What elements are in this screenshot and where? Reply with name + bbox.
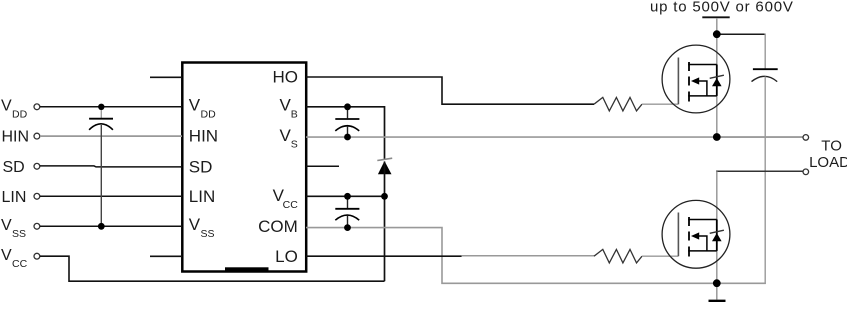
node VSS-C1 junction	[98, 223, 105, 230]
capacitor C2 (bootstrap) top lead	[347, 107, 349, 119]
wire VCC input run	[40, 256, 385, 281]
label TO LOAD	[809, 137, 847, 170]
terminal VDD	[34, 104, 40, 110]
wire COM return (gray)	[306, 228, 766, 284]
wire R2 to Q2 gate	[642, 255, 678, 257]
wire HIN input (gray)	[40, 135, 182, 137]
wire VDD input	[40, 106, 182, 108]
supply terminal bar	[702, 16, 729, 18]
svg-text:TO: TO	[821, 137, 842, 154]
node COM-C3 junction	[344, 224, 351, 231]
capacitor C3 bottom lead	[347, 216, 349, 228]
wire stub top-left of IC	[150, 76, 182, 78]
terminal load lower	[803, 169, 809, 175]
IC pin label VS	[279, 126, 297, 151]
wire LO output (gray segment)	[462, 255, 594, 257]
wire Q2 drain/source column (gray)	[716, 171, 718, 283]
capacitor C3 top plate	[335, 208, 359, 210]
body diode of Q1	[710, 75, 724, 78]
IC pin label VDD	[189, 96, 216, 121]
capacitor C4 (bus) upper lead (gray)	[764, 34, 766, 69]
node VS midpoint junction	[713, 133, 721, 141]
wire supply stem	[716, 18, 718, 34]
capacitor C1 (VDD bypass) lead	[100, 107, 102, 118]
svg-text:CC: CC	[283, 199, 299, 211]
wire R1 to Q1 gate	[642, 103, 678, 105]
node VCC-C3 junction	[344, 193, 351, 200]
svg-text:up to 500V or 600V: up to 500V or 600V	[650, 0, 794, 16]
resistor R2 (low-side gate)	[594, 249, 642, 263]
svg-text:HIN: HIN	[189, 127, 218, 146]
label VDD (input)	[1, 98, 28, 121]
IC pin label VB	[279, 96, 297, 121]
svg-text:B: B	[291, 109, 298, 121]
wire supply rail to bus cap	[717, 33, 765, 35]
capacitor C4 top plate	[753, 68, 778, 70]
IC pin label VCC	[273, 186, 299, 211]
svg-text:COM: COM	[258, 217, 298, 236]
svg-text:S: S	[291, 139, 298, 151]
transistor Q1 (high-side MOSFET)	[662, 45, 730, 113]
IC bottom thick mark	[225, 267, 269, 272]
terminal HIN	[34, 133, 40, 139]
node VB-C2 junction	[344, 103, 351, 110]
svg-text:HO: HO	[273, 68, 299, 87]
wire VCC output	[306, 195, 385, 197]
svg-text:SD: SD	[189, 157, 213, 176]
svg-text:LIN: LIN	[189, 187, 215, 206]
svg-text:SS: SS	[201, 228, 215, 240]
wire load upper branch	[720, 136, 803, 138]
wire Q1 drain rail (gray)	[716, 34, 718, 137]
terminal VCC	[34, 253, 40, 259]
node VS-C2 junction	[344, 134, 351, 141]
svg-text:SD: SD	[3, 159, 25, 176]
capacitor C2 top plate	[335, 118, 359, 120]
wire HO output	[306, 77, 594, 104]
svg-text:V: V	[189, 215, 201, 234]
terminal LIN	[34, 193, 40, 199]
wire stub bottom-left of IC	[150, 255, 182, 257]
svg-text:DD: DD	[12, 108, 28, 120]
transistor Q2 (low-side MOSFET)	[662, 200, 730, 268]
wire LIN input	[40, 195, 182, 197]
wire VS output (gray, to load midpoint)	[306, 136, 803, 138]
svg-text:V: V	[1, 247, 12, 264]
wire VSS input	[40, 225, 182, 227]
capacitor C3 curved plate	[335, 215, 359, 220]
label VCC (input)	[1, 247, 28, 270]
capacitor C1 lower lead to VSS	[100, 125, 102, 226]
IC U1 outline	[182, 63, 306, 272]
terminal SD	[34, 163, 40, 169]
node supply junction	[713, 30, 721, 38]
capacitor C2 curved plate	[335, 126, 359, 131]
capacitor C4 curved plate	[752, 76, 778, 81]
capacitor C4 lower lead (gray)	[764, 77, 766, 285]
label VSS (input)	[1, 217, 26, 240]
node D1-VCC junction	[381, 193, 388, 200]
capacitor C1 top plate	[89, 118, 113, 120]
wire SD input	[40, 166, 182, 167]
IC pin label VSS	[189, 215, 215, 240]
svg-text:CC: CC	[12, 258, 28, 270]
capacitor C3 (VCC bypass) top lead	[347, 196, 349, 208]
ground bar	[709, 300, 726, 302]
wire unused pin stub	[306, 165, 339, 167]
terminal VSS	[34, 223, 40, 229]
diode D1 body	[378, 161, 392, 174]
wire VB output	[306, 107, 385, 159]
wire LO output (black segment)	[306, 255, 462, 257]
capacitor C2 bottom lead	[347, 126, 349, 137]
diode D1 (bootstrap) cathode bar	[377, 158, 392, 160]
wire load lower branch	[716, 170, 803, 172]
svg-text:LIN: LIN	[2, 189, 27, 206]
svg-text:LOAD: LOAD	[809, 154, 847, 171]
svg-text:V: V	[1, 217, 12, 234]
svg-text:SS: SS	[12, 228, 26, 240]
resistor R1 (high-side gate)	[594, 97, 642, 111]
svg-text:HIN: HIN	[2, 129, 30, 146]
svg-text:V: V	[279, 126, 291, 145]
wire D1 anode to VCC node	[384, 162, 386, 282]
ground stem	[716, 283, 718, 299]
terminal load upper	[803, 135, 809, 141]
svg-text:V: V	[189, 96, 201, 115]
node ground junction	[713, 279, 721, 287]
capacitor C1 curved plate	[89, 124, 113, 130]
svg-text:V: V	[1, 98, 12, 115]
svg-text:DD: DD	[201, 109, 217, 121]
body diode of Q2	[710, 230, 724, 233]
svg-text:LO: LO	[275, 247, 298, 266]
svg-text:V: V	[279, 96, 291, 115]
node VDD-C1 junction	[98, 104, 104, 110]
